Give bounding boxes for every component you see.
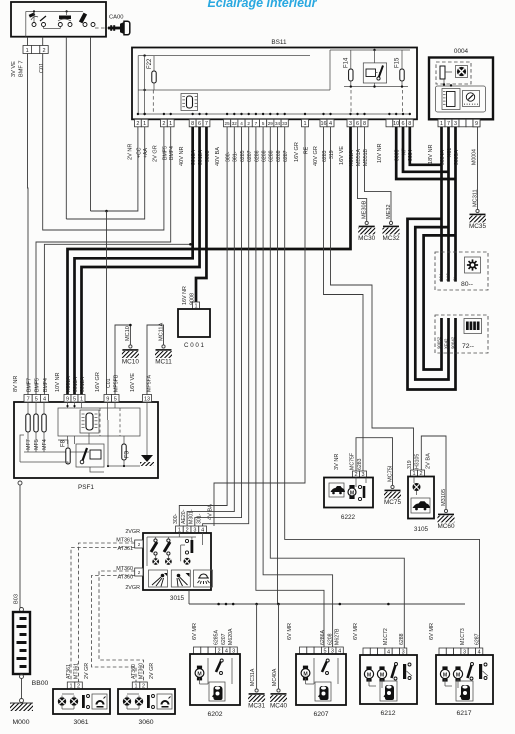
svg-text:Eclairage intérieur: Eclairage intérieur [207,0,317,10]
BS11 connector pins group8 [386,119,393,127]
svg-text:BB00: BB00 [32,680,49,687]
svg-text:40V BA: 40V BA [215,147,221,166]
AC control unit 80 [435,252,488,290]
wire BMF4 to PSF1 [36,127,171,395]
wire X61 thick vertical [447,127,450,282]
wire MC40A [278,604,280,689]
svg-text:18V NR: 18V NR [428,144,434,164]
svg-text:2V GR: 2V GR [84,663,90,679]
svg-text:3: 3 [349,121,352,127]
svg-text:6L: 6L [453,276,458,281]
ground MC60 [444,509,447,512]
svg-text:1: 1 [80,396,83,402]
svg-text:40V GR: 40V GR [313,146,319,166]
6212 switch [392,665,396,678]
svg-text:3015: 3015 [170,595,185,602]
svg-text:6: 6 [401,121,404,127]
fuse F3 [123,436,125,444]
ground M000 [20,699,24,703]
CA00 dashed link to key [95,27,108,29]
svg-text:1: 1 [26,48,29,54]
svg-text:6V MR: 6V MR [287,623,293,640]
wire MC31A [256,604,258,689]
wire 6283 [324,127,364,471]
svg-text:BS11: BS11 [271,39,287,46]
6222 pins [353,471,360,478]
ground MC10 [129,345,132,348]
svg-text:3061: 3061 [73,719,88,726]
ground MC40 [277,689,280,692]
svg-text:5: 5 [262,121,265,126]
svg-text:AT361: AT361 [118,546,133,552]
wire branch to 72 inner [424,235,456,369]
connector C01 [23,46,31,54]
svg-text:6287: 6287 [474,633,480,645]
6217 contact bar [479,664,482,679]
6207 switch [322,661,327,672]
6217 motor 1 [442,666,447,669]
svg-text:16: 16 [320,121,326,127]
svg-text:300-: 300- [226,151,232,162]
wire 9012A thick [82,127,200,395]
bus wire 6268 [278,127,466,604]
6212 motor 1 [366,666,371,669]
svg-text:MT360: MT360 [138,663,144,679]
3015 icon dome lamp [194,570,213,587]
svg-text:25: 25 [225,121,231,126]
PSF1 internal module [58,408,140,436]
svg-text:40V NR: 40V NR [179,146,185,166]
svg-text:MT361: MT361 [116,538,133,544]
wire branch to 72 middle [415,227,448,379]
wire C01 to PSF1 pin9 [106,211,108,395]
svg-text:6287: 6287 [283,150,289,162]
3105 car icon [411,498,430,513]
svg-text:6222: 6222 [341,514,356,521]
svg-text:10V NR: 10V NR [55,372,61,392]
svg-text:AT360: AT360 [131,664,137,679]
svg-text:M627B: M627B [335,628,341,645]
3015 pins [176,526,184,533]
wire M0004 to MC35 [477,127,479,210]
6222 car icon [329,483,344,497]
svg-text:ME30B: ME30B [362,200,368,219]
IC component in BS11 [181,94,198,111]
bus wire 6287 [285,127,480,648]
PSF1 IC symbol [80,410,99,433]
svg-text:RE: RE [303,146,309,154]
svg-text:2: 2 [247,121,250,126]
3015 switch blades [151,542,157,552]
svg-text:M: M [456,672,460,678]
door lock unit 6202 [190,654,240,705]
svg-text:M1C72: M1C72 [383,628,389,645]
fuse F22 [152,71,156,83]
svg-text:13: 13 [144,396,150,402]
svg-text:M1C73: M1C73 [460,628,466,645]
wire MC75F [356,438,393,485]
svg-text:2V NR: 2V NR [128,144,134,160]
svg-text:MC31A: MC31A [250,668,256,686]
svg-text:90042: 90042 [450,336,455,349]
PSF1 pins group3 [104,395,112,403]
fuse F8 [66,448,70,464]
svg-text:6: 6 [356,121,359,127]
lamp unit 3105 [408,477,434,519]
reading lamp unit 3060 [118,689,175,714]
svg-text:6207: 6207 [221,633,227,645]
svg-text:9: 9 [66,396,69,402]
6202 internal wires [199,678,201,684]
svg-text:3105: 3105 [414,526,429,533]
svg-text:B03: B03 [14,594,20,604]
wire 9004A thick vertical [440,127,443,282]
svg-text:301-: 301- [233,151,239,162]
6212 internal wires [368,679,370,686]
svg-text:6288: 6288 [269,150,275,162]
fuse F15 [400,69,404,81]
svg-text:M: M [350,490,354,496]
svg-text:BMF5: BMF5 [35,378,41,392]
svg-text:0004: 0004 [454,48,469,55]
svg-text:6285A: 6285A [213,629,219,645]
svg-text:M3105: M3105 [441,489,447,506]
svg-text:5: 5 [35,396,38,402]
svg-text:7: 7 [27,396,30,402]
3061 contact [82,695,85,708]
svg-text:10: 10 [393,121,399,127]
svg-text:2VGR: 2VGR [125,585,140,591]
terminal B03 [18,481,22,485]
PSF1 internal wires [67,402,69,408]
svg-text:6283: 6283 [322,150,328,162]
wire XF thick [403,127,449,172]
bus wire 6288 [270,127,404,648]
6202 door icon [209,682,225,701]
svg-text:0A6: 0A6 [446,273,451,281]
svg-text:MC75: MC75 [384,499,401,506]
engine fusebox PSF1 [14,402,158,478]
wire 9013A thick [75,127,193,395]
6202 switch [216,661,221,672]
wire MT361 dashed [79,543,135,682]
0004 display module [436,86,486,112]
3015 left pins [135,540,143,548]
svg-text:BMF7: BMF7 [27,378,33,392]
3015 icon lamp2 [171,570,190,587]
svg-text:2VGR: 2VGR [125,529,140,535]
svg-text:5: 5 [114,396,117,402]
svg-text:MC11: MC11 [155,359,172,366]
BS11 connector pin RE [302,119,309,127]
wire MB51B to MC32 [365,127,392,222]
6217 pins [439,648,446,655]
svg-text:6283: 6283 [357,458,363,470]
svg-text:3: 3 [454,121,457,127]
svg-text:6288: 6288 [399,633,405,645]
6217 motor 2 [455,666,460,669]
6222 motor [349,485,354,488]
6217 internal wires [444,679,446,686]
BS11 connector pins group1 [135,119,142,127]
svg-text:2: 2 [138,570,141,575]
svg-text:16V GR: 16V GR [294,142,300,162]
bus wire 301- [187,127,234,526]
ground MC31 [255,689,258,692]
0004 connector pins [438,119,445,127]
BS11 internal rails [138,55,310,57]
svg-text:H3105: H3105 [415,454,421,469]
C001 pin [193,302,200,309]
ground MC11 [162,345,165,348]
svg-text:90052: 90052 [436,336,441,349]
6207 motor [303,666,308,669]
reading lamp unit 3061 [53,689,110,714]
3015 icon lamp1 [149,570,168,587]
svg-text:72--: 72-- [462,343,474,350]
svg-text:6208: 6208 [262,150,268,162]
wire 9005 thick [396,127,455,179]
svg-text:CA00: CA00 [109,15,124,21]
6212 contact bar [403,664,406,679]
svg-text:4: 4 [329,121,332,127]
6217 door icon [456,681,473,701]
ignition switch CA00 [11,2,106,37]
svg-text:F14: F14 [343,57,349,68]
0004 gauge icon [463,91,480,107]
wire M3105 to MC60 [421,436,446,509]
svg-text:F15: F15 [395,57,401,68]
6212 motor 2 [379,666,384,669]
svg-text:9013A: 9013A [73,376,79,392]
svg-text:10V NR: 10V NR [377,143,383,163]
svg-text:M: M [367,672,371,678]
svg-text:BMF4: BMF4 [169,146,175,160]
svg-text:16V GR: 16V GR [95,372,101,392]
svg-text:M: M [197,671,201,677]
svg-text:+CC: +CC [136,147,142,158]
svg-text:6217: 6217 [456,710,471,717]
wire BMF5 to C01 [43,54,164,231]
sliding door unit 6217 [436,655,493,704]
svg-text:80A: 80A [439,273,444,281]
svg-text:MF7: MF7 [26,439,32,450]
ground MC75 [391,485,394,488]
svg-text:6V MR: 6V MR [429,623,435,640]
wire BMF7 to PSF1 [27,54,30,395]
wire 9004 thick [410,127,442,165]
3061 pins [67,682,75,689]
fuse F14 [349,69,353,81]
svg-text:MC75F: MC75F [350,453,356,470]
svg-text:MC40: MC40 [270,703,287,710]
svg-text:7: 7 [205,121,208,127]
PSF1 pins group2 [64,395,71,403]
3015 internal wires [147,536,196,538]
wire MT360 dashed [99,571,144,682]
6202 motor [197,666,202,669]
BS11 right rail [330,49,410,51]
3060 bulbs [123,697,131,705]
svg-text:MT361: MT361 [73,663,79,679]
svg-text:6268: 6268 [276,150,282,162]
interior light unit 6222 [324,478,373,508]
bus wire 300- [179,127,227,526]
3061 bulbs [58,697,66,705]
svg-text:80--: 80-- [461,281,473,288]
svg-text:M301-: M301- [189,509,195,524]
ground MC32 [389,221,392,224]
svg-text:AT361: AT361 [66,664,72,679]
wire B03 to battery [19,485,21,608]
BS11 connector pins group4 [224,119,231,127]
3060 pins [132,682,140,689]
6222 switch [363,486,366,498]
svg-text:M: M [303,671,307,677]
svg-text:BMF4: BMF4 [43,378,49,392]
svg-text:6286A: 6286A [320,629,326,645]
CA00 internal rail [26,10,83,12]
svg-text:6V MR: 6V MR [192,623,198,640]
wire CA00 t3 [65,37,67,219]
svg-text:M: M [443,672,447,678]
ground MC30 [365,221,368,224]
svg-text:ME32: ME32 [386,204,392,219]
svg-text:1: 1 [440,121,443,127]
bus wire 6286A [256,127,324,647]
lamp control unit 3015 [143,533,211,590]
CA00 contact 3 [83,23,87,27]
3060 contact [147,695,150,708]
snowflake icon [465,257,481,273]
wire +CC to CA00 [91,127,138,211]
svg-text:6286: 6286 [254,150,260,162]
svg-text:7: 7 [255,121,258,126]
svg-text:M0004: M0004 [472,149,478,165]
svg-text:319: 319 [329,150,335,159]
svg-text:MF5: MF5 [34,439,40,450]
svg-text:PSF1: PSF1 [78,484,94,491]
svg-text:300-: 300- [173,513,179,524]
svg-text:BMF 7: BMF 7 [19,61,25,77]
wire MP5FA to MC11 [147,325,164,395]
wire PSF1 pin4 link [44,244,190,394]
svg-text:AE20-: AE20- [181,509,187,524]
svg-text:2V GR: 2V GR [149,663,155,679]
PSF1 internal ground [146,450,148,455]
wire branch to 72 outer [408,219,456,390]
svg-text:F3: F3 [124,450,130,458]
3105 pins [411,470,418,477]
svg-text:C01: C01 [106,378,112,388]
6202 pins [194,647,201,654]
svg-text:1: 1 [169,121,172,127]
svg-text:MC75I: MC75I [387,465,393,482]
multifunction display 72 [435,315,488,353]
6207 pins [300,647,307,654]
svg-text:33: 33 [282,121,288,126]
3015 right contact [191,540,194,553]
svg-text:MC30: MC30 [358,235,375,242]
PSF1 fuses MF7 MF5 MF4 [27,402,29,414]
svg-text:M620A: M620A [228,628,234,645]
wire MP5FB to MC10 [115,325,130,395]
PSF1 pins group1 [24,395,32,403]
svg-text:M: M [380,672,384,678]
svg-text:2: 2 [136,121,139,127]
svg-text:8: 8 [408,121,411,127]
CA00 contact 2 [58,23,62,27]
svg-text:MC40A: MC40A [272,668,278,686]
ground MC35 [476,209,479,212]
svg-text:301-: 301- [196,513,202,524]
svg-text:9012A: 9012A [80,376,86,392]
svg-text:MC35: MC35 [469,223,486,230]
svg-text:6208: 6208 [327,633,333,645]
CA00 contact 1 [32,23,36,27]
svg-text:6285: 6285 [240,150,246,162]
wire 9005A thick vertical [454,127,457,282]
svg-text:6202: 6202 [207,711,222,718]
svg-text:MC32: MC32 [382,235,399,242]
wire 9008 thick to C001 [196,127,206,302]
svg-text:34: 34 [275,121,281,126]
3060 lamp icon [157,694,172,709]
wire MB51A to MC30 [358,127,367,222]
svg-text:MB51A: MB51A [356,148,362,166]
BS11 connector pins group2 [161,119,168,127]
svg-text:29: 29 [268,121,274,126]
wire CA00 t4 [90,37,92,211]
6207 door icon [315,682,331,701]
6212 door icon [380,681,397,701]
svg-text:MF4: MF4 [42,439,48,450]
svg-text:X001A: X001A [66,376,72,392]
svg-text:F22: F22 [147,58,153,69]
svg-text:MC311: MC311 [472,189,478,207]
svg-text:32: 32 [232,121,238,126]
svg-text:MC11A: MC11A [158,322,164,341]
svg-text:2: 2 [138,542,141,547]
3061 lamp icon [92,694,107,709]
relay in BS11 [363,63,386,83]
wire RE [214,127,305,526]
svg-text:8V NR: 8V NR [13,376,19,392]
svg-text:9: 9 [106,396,109,402]
svg-text:6212: 6212 [380,710,395,717]
svg-text:9: 9 [475,121,478,127]
svg-text:2: 2 [162,121,165,127]
3015 bulbs [152,558,159,565]
svg-text:MC31: MC31 [248,703,265,710]
BS11 connector pins group3 [189,119,196,127]
svg-text:6207: 6207 [313,711,328,718]
sliding door unit 6212 [360,655,417,704]
svg-text:6V MR: 6V MR [353,623,359,640]
svg-text:3V NR: 3V NR [334,454,340,470]
6207 internal wires [305,678,307,684]
svg-text:4: 4 [43,396,46,402]
svg-text:MB51B: MB51B [363,148,369,166]
svg-text:5: 5 [73,396,76,402]
svg-text:MT360: MT360 [116,566,133,572]
svg-text:3V VE: 3V VE [11,61,17,77]
svg-text:4: 4 [240,121,243,126]
0004 inner dashed module [436,62,471,84]
BS11 connector pins group6 [320,119,327,127]
6212 pins [363,648,370,655]
svg-text:MC60: MC60 [437,523,454,530]
